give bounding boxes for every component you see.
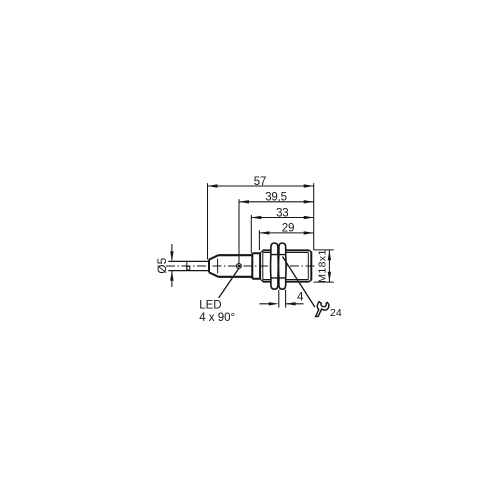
- LED leader: [219, 268, 239, 298]
- svg-text:M18x1: M18x1: [317, 249, 329, 283]
- cable detail square: [187, 266, 190, 270]
- dim 39,5: [239, 199, 314, 263]
- svg-text:29: 29: [282, 223, 294, 235]
- svg-text:4: 4: [297, 292, 304, 304]
- svg-text:4 x 90°: 4 x 90°: [199, 312, 235, 324]
- svg-text:Ø5: Ø5: [155, 257, 169, 273]
- labels: [155, 176, 342, 324]
- svg-text:57: 57: [254, 176, 266, 188]
- svg-text:39,5: 39,5: [265, 192, 287, 204]
- nut 1: [271, 243, 279, 289]
- thread chamfer: [260, 250, 263, 281]
- dim 29: [259, 230, 313, 250]
- dim M18x1 ticks: [314, 250, 334, 282]
- step ring: [252, 253, 260, 279]
- cone tick: [217, 259, 219, 274]
- thread barrel: [263, 250, 310, 281]
- svg-text:LED: LED: [199, 299, 221, 311]
- front face: [310, 252, 312, 281]
- thread root lines: [263, 253, 309, 280]
- wrench icon: [316, 302, 329, 317]
- cable: [168, 261, 209, 270]
- wrench leader: [283, 257, 315, 308]
- dim 4: [259, 290, 303, 308]
- cone strain relief: [209, 255, 218, 277]
- dim D5: [171, 244, 173, 287]
- nut 2: [279, 243, 287, 289]
- dim 33: [251, 215, 313, 253]
- svg-text:24: 24: [330, 307, 342, 319]
- centerline: [166, 265, 316, 267]
- dim 57: [208, 183, 314, 259]
- rear housing: [218, 255, 252, 277]
- LED circle: [237, 264, 242, 269]
- cable tick: [186, 261, 188, 270]
- svg-text:33: 33: [276, 207, 288, 219]
